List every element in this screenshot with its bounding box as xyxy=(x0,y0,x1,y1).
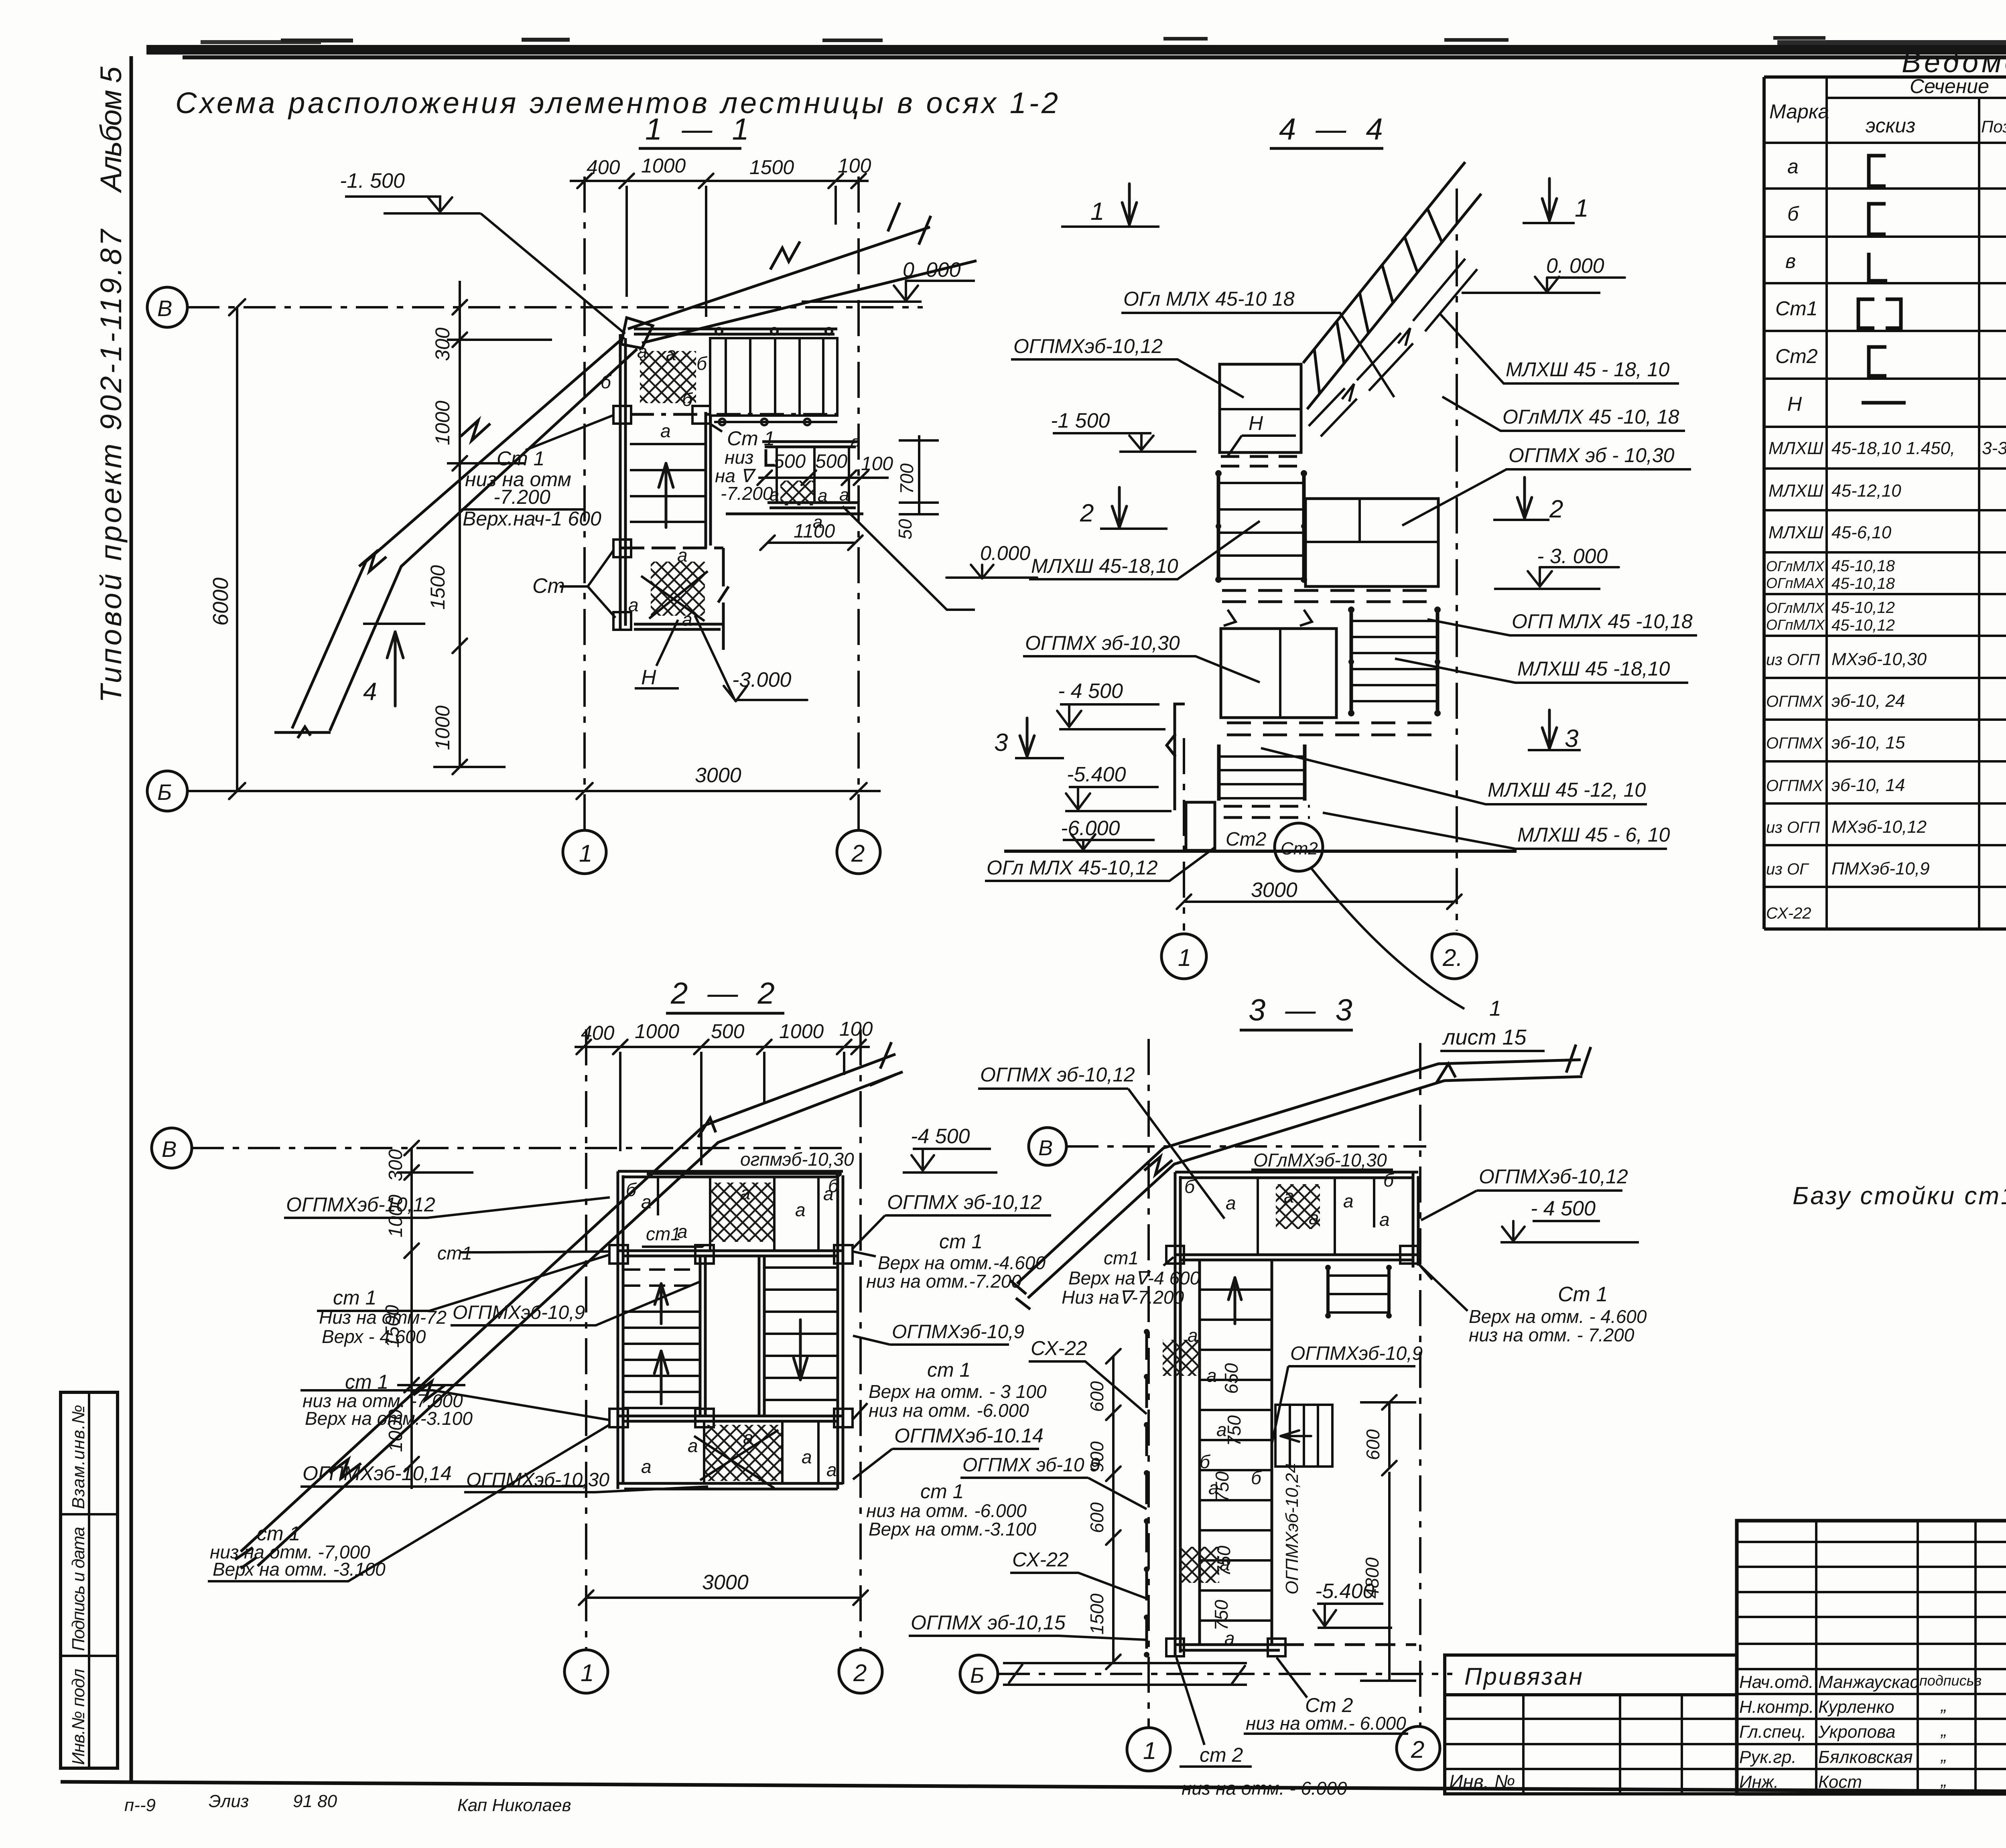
svg-text:а: а xyxy=(1787,155,1799,178)
svg-text:Ведомость: Ведомость xyxy=(1902,47,2006,79)
dashed strip 3 xyxy=(1227,723,1434,735)
lowest flight xyxy=(1219,744,1305,801)
top landing xyxy=(1276,1184,1320,1229)
svg-text:ОГПМХэб-10,24: ОГПМХэб-10,24 xyxy=(1282,1463,1302,1594)
svg-text:Верх на отм.-3.100: Верх на отм.-3.100 xyxy=(305,1408,473,1429)
svg-text:ст1: ст1 xyxy=(1104,1248,1139,1268)
right labels xyxy=(1488,358,1693,846)
left dim chain xyxy=(1112,1356,1115,1662)
svg-text:1: 1 xyxy=(1575,195,1588,222)
svg-text:Верх - 4.600: Верх - 4.600 xyxy=(322,1326,426,1347)
svg-text:МЛХШ 45-18,10: МЛХШ 45-18,10 xyxy=(1031,555,1178,577)
left stamp boxes xyxy=(61,1392,118,1768)
svg-text:45-10,18: 45-10,18 xyxy=(1831,575,1895,592)
axis B xyxy=(1029,1128,1066,1165)
svg-text:низ: низ xyxy=(725,447,753,468)
svg-text:-5.400: -5.400 xyxy=(1067,763,1126,786)
svg-text:600: 600 xyxy=(1086,1381,1107,1412)
svg-text:ОГлМЛХ: ОГлМЛХ xyxy=(1766,558,1825,574)
svg-text:Кост: Кост xyxy=(1818,1772,1862,1792)
central stair column xyxy=(1200,1260,1272,1645)
svg-text:МЛХШ: МЛХШ xyxy=(1768,438,1823,458)
svg-text:а: а xyxy=(637,341,648,362)
svg-text:Б: Б xyxy=(970,1663,984,1688)
svg-text:ОГл МЛХ 45-10 18: ОГл МЛХ 45-10 18 xyxy=(1123,288,1295,310)
svg-text:СХ-22: СХ-22 xyxy=(1766,905,1811,922)
svg-text:б: б xyxy=(696,353,708,374)
svg-text:ОГПМХэб-10.14: ОГПМХэб-10.14 xyxy=(894,1424,1044,1447)
svg-text:Верх на отм. -3.100: Верх на отм. -3.100 xyxy=(213,1559,386,1580)
svg-text:6000: 6000 xyxy=(209,578,233,626)
svg-text:ПМХэб-10,9: ПМХэб-10,9 xyxy=(1831,859,1930,878)
svg-text:1: 1 xyxy=(581,1659,594,1686)
svg-text:„: „ xyxy=(1940,1720,1947,1740)
svg-text:2: 2 xyxy=(1080,499,1094,527)
svg-text:а: а xyxy=(677,545,688,566)
svg-text:а: а xyxy=(1224,1628,1235,1649)
top dims xyxy=(575,1046,870,1048)
svg-text:750: 750 xyxy=(1211,1600,1232,1631)
middle flight xyxy=(630,444,705,522)
svg-text:1: 1 xyxy=(1178,944,1191,971)
4800 dim xyxy=(1388,1472,1391,1681)
svg-text:ОГПМХэб-10,12: ОГПМХэб-10,12 xyxy=(1013,335,1163,357)
svg-text:2: 2 xyxy=(1411,1736,1424,1763)
svg-text:из ОГП: из ОГП xyxy=(1766,819,1820,836)
plan walls xyxy=(1175,1172,1418,1656)
svg-text:0. 000: 0. 000 xyxy=(1546,254,1604,278)
svg-text:300: 300 xyxy=(385,1149,406,1181)
svg-text:ОГПМХэб-10,12: ОГПМХэб-10,12 xyxy=(286,1193,435,1216)
svg-text:45-10,12: 45-10,12 xyxy=(1831,617,1895,634)
svg-text:4: 4 xyxy=(363,678,377,706)
svg-text:-4 500: -4 500 xyxy=(911,1125,970,1148)
small grid rect xyxy=(1275,1405,1332,1467)
svg-text:Инж.: Инж. xyxy=(1739,1772,1779,1792)
dashed strip 2 xyxy=(1222,590,1435,602)
svg-text:2: 2 xyxy=(1549,495,1563,523)
svg-text:400: 400 xyxy=(581,1022,615,1044)
svg-text:а: а xyxy=(666,343,676,364)
under-landing dashed strip xyxy=(624,1270,700,1286)
svg-text:ОГПМХ эб-10,15: ОГПМХ эб-10,15 xyxy=(911,1611,1066,1634)
svg-text:низ на отм. - 6.000: низ на отм. - 6.000 xyxy=(1182,1778,1347,1799)
svg-text:Кап Николаев: Кап Николаев xyxy=(457,1795,571,1815)
svg-text:1: 1 xyxy=(1143,1737,1156,1764)
svg-text:Марка: Марка xyxy=(1769,100,1829,123)
svg-text:а: а xyxy=(1379,1209,1390,1230)
svg-text:Инв. №: Инв. № xyxy=(1449,1771,1515,1793)
rows 7-18 Марка + эскиз + состав xyxy=(1766,438,2006,923)
svg-text:-5.400: -5.400 xyxy=(1315,1580,1375,1603)
svg-text:а: а xyxy=(682,609,692,630)
svg-text:а: а xyxy=(1343,1191,1354,1211)
svg-text:500: 500 xyxy=(774,451,806,472)
plan: walls xyxy=(620,329,838,650)
svg-text:МЛХШ 45 -12, 10: МЛХШ 45 -12, 10 xyxy=(1488,779,1646,801)
header texts xyxy=(1769,75,2006,143)
svg-text:900: 900 xyxy=(1086,1441,1107,1472)
axis Б + 3000 dim xyxy=(147,771,187,811)
column Марка rows 1-6 xyxy=(1775,155,1818,415)
svg-text:3 — 3: 3 — 3 xyxy=(1249,993,1358,1027)
svg-text:3-3: 3-3 xyxy=(1982,438,2006,458)
svg-text:500: 500 xyxy=(815,451,847,472)
svg-text:-1 500: -1 500 xyxy=(1051,409,1110,432)
left dim chain xyxy=(459,281,461,767)
top-left hatch xyxy=(640,351,696,403)
left posts dashed xyxy=(1145,1330,1148,1657)
svg-text:Верх на отм. - 4.600: Верх на отм. - 4.600 xyxy=(1469,1306,1647,1327)
svg-text:Укропова: Укропова xyxy=(1818,1722,1896,1742)
svg-text:- 4 500: - 4 500 xyxy=(1531,1197,1596,1220)
axis B xyxy=(152,1128,192,1168)
svg-text:МЛХШ 45 -18,10: МЛХШ 45 -18,10 xyxy=(1517,657,1670,680)
svg-text:- 3. 000: - 3. 000 xyxy=(1537,545,1608,568)
svg-text:эб-10, 15: эб-10, 15 xyxy=(1831,733,1905,753)
svg-text:б: б xyxy=(626,1179,637,1200)
svg-text:а: а xyxy=(641,1456,652,1477)
svg-text:МХэб-10,12: МХэб-10,12 xyxy=(1831,817,1927,837)
label Ct1 left xyxy=(463,447,601,530)
svg-text:Бялковская: Бялковская xyxy=(1818,1747,1913,1767)
svg-text:МЛХШ 45 - 6, 10: МЛХШ 45 - 6, 10 xyxy=(1517,824,1670,846)
svg-text:3000: 3000 xyxy=(695,764,741,787)
svg-text:Верх на отм.-3.100: Верх на отм.-3.100 xyxy=(869,1519,1036,1540)
svg-text:Манжаускас: Манжаускас xyxy=(1818,1672,1919,1692)
svg-text:ОГпМАХ: ОГпМАХ xyxy=(1766,575,1825,591)
top-right flight xyxy=(710,338,837,422)
main page title xyxy=(175,86,1062,120)
svg-text:ОГП МЛХ 45 -10,18: ОГП МЛХ 45 -10,18 xyxy=(1512,610,1693,633)
svg-text:ОГПМХ эб-10,12: ОГПМХ эб-10,12 xyxy=(980,1063,1135,1086)
left wall bracket xyxy=(1167,704,1185,810)
svg-text:В: В xyxy=(162,1136,177,1162)
diagonal band xyxy=(235,1042,903,1568)
svg-text:3000: 3000 xyxy=(702,1571,749,1594)
svg-text:100: 100 xyxy=(838,154,871,177)
svg-text:Ст 1: Ст 1 xyxy=(497,447,544,470)
svg-text:а: а xyxy=(1226,1193,1236,1213)
svg-text:а: а xyxy=(839,485,849,505)
svg-text:МЛХШ: МЛХШ xyxy=(1768,523,1823,542)
svg-text:а: а xyxy=(826,1459,837,1480)
bottom landing xyxy=(704,1425,782,1481)
svg-text:Схема расположения элементов л: Схема расположения элементов лестницы в … xyxy=(175,86,1062,120)
svg-text:Н: Н xyxy=(1787,393,1802,415)
svg-text:1000: 1000 xyxy=(431,401,454,445)
svg-text:650: 650 xyxy=(1221,1363,1242,1394)
svg-text:ст 2: ст 2 xyxy=(1200,1744,1243,1766)
svg-text:1: 1 xyxy=(1090,198,1104,225)
lower-left rect xyxy=(1221,629,1336,718)
svg-text:500: 500 xyxy=(711,1020,745,1043)
svg-text:ОГл МЛХ 45-10,12: ОГл МЛХ 45-10,12 xyxy=(987,856,1158,879)
svg-text:Курленко: Курленко xyxy=(1818,1697,1894,1717)
svg-text:а: а xyxy=(688,1435,698,1456)
sketch channel glyphs xyxy=(1858,156,1906,403)
svg-text:низ на отм. -6.000: низ на отм. -6.000 xyxy=(866,1500,1027,1521)
svg-text:3000: 3000 xyxy=(1251,878,1297,902)
svg-text:Альбом 5: Альбом 5 xyxy=(94,66,128,193)
svg-text:Привязан: Привязан xyxy=(1464,1663,1584,1690)
svg-text:а: а xyxy=(1284,1186,1294,1207)
svg-text:Верх на отм. - 3 100: Верх на отм. - 3 100 xyxy=(869,1381,1047,1402)
svg-text:750: 750 xyxy=(1224,1415,1245,1446)
svg-text:400: 400 xyxy=(587,156,620,179)
svg-text:Ст2: Ст2 xyxy=(1226,829,1266,850)
svg-text:„: „ xyxy=(1940,1696,1947,1715)
svg-text:100: 100 xyxy=(839,1018,873,1040)
svg-text:1500: 1500 xyxy=(749,156,794,179)
upper diagonal band xyxy=(628,203,977,343)
svg-text:Б: Б xyxy=(157,779,172,805)
svg-text:а: а xyxy=(1216,1419,1227,1440)
signature rows xyxy=(1739,1672,1982,1792)
svg-text:а: а xyxy=(795,1199,806,1220)
svg-text:а: а xyxy=(1208,1477,1219,1498)
svg-text:МЛХШ 45 - 18, 10: МЛХШ 45 - 18, 10 xyxy=(1506,358,1669,381)
svg-text:ОГПМХ эб-10,12: ОГПМХ эб-10,12 xyxy=(887,1191,1042,1213)
svg-text:Верх на отм.-4.600: Верх на отм.-4.600 xyxy=(878,1252,1046,1273)
svg-text:45-12,10: 45-12,10 xyxy=(1831,481,1901,501)
left dim chain xyxy=(410,1148,413,1489)
svg-text:эб-10, 14: эб-10, 14 xyxy=(1831,775,1905,795)
right flight treads xyxy=(764,1268,838,1400)
svg-text:б: б xyxy=(1200,1451,1211,1472)
svg-text:45-6,10: 45-6,10 xyxy=(1831,523,1892,542)
svg-text:Поз: Поз xyxy=(1981,117,2006,136)
svg-text:а: а xyxy=(628,594,639,615)
svg-text:1000: 1000 xyxy=(779,1020,824,1043)
svg-text:из ОГ: из ОГ xyxy=(1766,860,1809,878)
svg-text:ст 1: ст 1 xyxy=(927,1359,971,1381)
top landing xyxy=(710,1183,774,1242)
top landing xyxy=(1220,364,1301,452)
svg-text:ОГПМХэб-10,9: ОГПМХэб-10,9 xyxy=(453,1302,585,1323)
svg-text:б: б xyxy=(1251,1467,1262,1488)
svg-text:лист 15: лист 15 xyxy=(1442,1025,1527,1049)
svg-text:ОГПМХэб-10,14: ОГПМХэб-10,14 xyxy=(303,1462,452,1485)
svg-text:45-18,10 1.450,: 45-18,10 1.450, xyxy=(1831,438,1955,458)
node squares xyxy=(613,406,710,630)
svg-text:45-10,18: 45-10,18 xyxy=(1831,557,1895,575)
svg-text:ОГПМХэб-10,12: ОГПМХэб-10,12 xyxy=(1479,1165,1628,1188)
svg-text:Ст1: Ст1 xyxy=(1775,297,1818,320)
svg-text:Низ на∇-7.200: Низ на∇-7.200 xyxy=(1062,1287,1184,1308)
right small flight xyxy=(1328,1266,1389,1318)
svg-text:Подпись и дата: Подпись и дата xyxy=(69,1527,88,1651)
svg-text:„: „ xyxy=(1940,1746,1947,1765)
svg-text:-1. 500: -1. 500 xyxy=(340,169,405,193)
svg-text:МХэб-10,30: МХэб-10,30 xyxy=(1831,649,1927,669)
svg-text:0.000: 0.000 xyxy=(980,542,1030,564)
svg-text:а: а xyxy=(641,1191,652,1212)
svg-text:ОГПМХ эб-10,30: ОГПМХ эб-10,30 xyxy=(1025,632,1180,654)
svg-text:50: 50 xyxy=(895,519,916,540)
grid axes 1,2 xyxy=(583,176,586,830)
svg-text:Гл.спец.: Гл.спец. xyxy=(1739,1722,1806,1742)
mid flight xyxy=(1218,472,1304,581)
top dim row xyxy=(570,180,869,182)
privyazan table xyxy=(1445,1655,1737,1794)
svg-text:б: б xyxy=(601,371,612,392)
svg-text:3: 3 xyxy=(994,729,1008,757)
axes xyxy=(1456,189,1458,931)
svg-text:а: а xyxy=(743,1427,753,1448)
svg-text:600: 600 xyxy=(1086,1502,1107,1533)
svg-text:1: 1 xyxy=(1489,996,1501,1020)
svg-text:ОГПМХ эб-10 9: ОГПМХ эб-10 9 xyxy=(962,1454,1100,1476)
left flight treads xyxy=(624,1312,700,1408)
svg-text:ст 1: ст 1 xyxy=(939,1230,983,1253)
svg-text:3: 3 xyxy=(1565,725,1578,753)
corner flag xyxy=(621,318,653,348)
bottom scribbles xyxy=(124,1791,571,1815)
label Ct1 node right xyxy=(715,427,775,504)
svg-text:ОГПМХ: ОГПМХ xyxy=(1766,734,1823,752)
svg-text:б: б xyxy=(828,1175,839,1196)
svg-text:Н.контр.: Н.контр. xyxy=(1739,1697,1814,1717)
svg-text:ОГлМЛХ: ОГлМЛХ xyxy=(1766,600,1825,616)
svg-text:СХ-22: СХ-22 xyxy=(1012,1548,1069,1571)
svg-text:ОГПМХ эб - 10,30: ОГПМХ эб - 10,30 xyxy=(1509,444,1675,467)
svg-text:1100: 1100 xyxy=(794,521,835,542)
outer + columns xyxy=(1737,1521,2006,1794)
svg-text:Верх на∇-4 600: Верх на∇-4 600 xyxy=(1068,1268,1200,1288)
600 dim right xyxy=(1388,1402,1391,1468)
svg-text:1000: 1000 xyxy=(635,1020,679,1043)
svg-text:эскиз: эскиз xyxy=(1866,114,1915,137)
svg-text:4 — 4: 4 — 4 xyxy=(1279,112,1389,146)
axis Б + strip xyxy=(960,1655,998,1693)
axis B xyxy=(147,287,187,327)
svg-text:Ст2: Ст2 xyxy=(1281,839,1318,858)
svg-text:1500: 1500 xyxy=(1086,1593,1107,1635)
letters xyxy=(601,341,708,630)
small right detail xyxy=(726,442,863,514)
svg-text:низ на отм.-7.200: низ на отм.-7.200 xyxy=(866,1271,1021,1292)
svg-text:а: а xyxy=(1309,1207,1319,1228)
svg-text:Инв.№ подл: Инв.№ подл xyxy=(69,1669,88,1765)
bottom hatch xyxy=(651,562,705,616)
svg-text:Верх.нач-1 600: Верх.нач-1 600 xyxy=(463,507,601,530)
svg-text:ОГПМХэб-10,9: ОГПМХэб-10,9 xyxy=(1290,1343,1423,1364)
top thick smudged border xyxy=(146,45,2006,55)
svg-text:-3.000: -3.000 xyxy=(732,668,792,692)
right lower flight xyxy=(1351,608,1437,715)
node squares xyxy=(609,1245,853,1427)
svg-text:-6.000: -6.000 xyxy=(1061,817,1120,840)
svg-text:91 80: 91 80 xyxy=(293,1791,337,1811)
svg-text:Рук.гр.: Рук.гр. xyxy=(1739,1747,1797,1767)
svg-text:а: а xyxy=(802,1446,812,1467)
diagonal band xyxy=(1010,1045,1591,1309)
svg-text:1000: 1000 xyxy=(641,154,686,177)
svg-text:1: 1 xyxy=(579,840,592,867)
node squares xyxy=(1166,1246,1418,1656)
svg-text:600: 600 xyxy=(1362,1429,1383,1460)
svg-text:В: В xyxy=(1038,1136,1053,1160)
svg-text:Базу стойки ст1 см. узел 2 н: Базу стойки ст1 см. узел 2 на листе 15. xyxy=(1793,1182,2006,1210)
svg-text:ОГПМХэб-10,9: ОГПМХэб-10,9 xyxy=(892,1321,1024,1343)
svg-text:2 — 2: 2 — 2 xyxy=(670,976,780,1010)
svg-text:низ на отм.- 6.000: низ на отм.- 6.000 xyxy=(1246,1713,1406,1734)
inclined ladder band xyxy=(1303,162,1481,409)
grid axes xyxy=(1147,1039,1150,1728)
svg-text:б: б xyxy=(1383,1170,1395,1191)
svg-text:ст 1: ст 1 xyxy=(920,1480,964,1503)
svg-text:Нач.отд.: Нач.отд. xyxy=(1739,1672,1813,1692)
svg-text:а: а xyxy=(770,485,779,505)
3000 dim xyxy=(586,1596,861,1599)
svg-text:ОГпМЛХ: ОГпМЛХ xyxy=(1766,617,1825,633)
svg-text:1500: 1500 xyxy=(426,565,449,610)
svg-text:в: в xyxy=(1785,250,1796,272)
svg-text:Н: Н xyxy=(1249,412,1263,434)
svg-text:из ОГП: из ОГП xyxy=(1766,651,1820,669)
svg-text:а: а xyxy=(1220,1554,1230,1574)
svg-text:низ на отм. -6.000: низ на отм. -6.000 xyxy=(869,1400,1029,1421)
svg-text:45-10,12: 45-10,12 xyxy=(1831,599,1895,617)
svg-text:ст 1: ст 1 xyxy=(333,1286,376,1309)
svg-text:а: а xyxy=(851,432,860,452)
plan walls xyxy=(618,1171,843,1489)
svg-text:ст1: ст1 xyxy=(646,1223,681,1244)
note text xyxy=(1793,1182,2006,1210)
lower diagonal band xyxy=(274,337,637,738)
svg-text:Элиз: Элиз xyxy=(209,1791,249,1811)
svg-text:Ст 1: Ст 1 xyxy=(1558,1283,1608,1306)
ground line xyxy=(1004,850,1517,853)
svg-text:700: 700 xyxy=(896,463,917,494)
Ct2 circle xyxy=(1275,823,1323,871)
svg-text:п--9: п--9 xyxy=(124,1795,156,1815)
right landing xyxy=(1306,499,1438,586)
svg-text:Взам.инв.№: Взам.инв.№ xyxy=(69,1405,88,1509)
svg-text:ОГПМХ: ОГПМХ xyxy=(1766,693,1823,710)
left labels xyxy=(210,1193,681,1580)
svg-text:1000: 1000 xyxy=(431,706,454,750)
svg-text:Типовой проект 902-1-119.87: Типовой проект 902-1-119.87 xyxy=(94,228,128,703)
section 4 mark bottom-left xyxy=(363,623,425,625)
left rotated project text xyxy=(94,66,128,703)
svg-text:„: „ xyxy=(1940,1771,1947,1790)
svg-text:Ст2: Ст2 xyxy=(1775,345,1818,367)
svg-text:а: а xyxy=(660,420,671,441)
svg-text:2: 2 xyxy=(851,840,865,867)
svg-text:эб-10, 24: эб-10, 24 xyxy=(1831,691,1905,711)
svg-text:2.: 2. xyxy=(1442,944,1463,971)
svg-text:Сечение: Сечение xyxy=(1910,75,1989,97)
svg-text:а: а xyxy=(740,1183,751,1203)
grid axes xyxy=(585,1029,587,1650)
left labels xyxy=(980,288,1295,879)
svg-text:б: б xyxy=(1787,203,1799,225)
svg-text:СХ-22: СХ-22 xyxy=(1031,1337,1087,1359)
svg-text:подписьв: подписьв xyxy=(1919,1672,1982,1689)
svg-text:- 4 500: - 4 500 xyxy=(1058,680,1123,703)
svg-text:1 — 1: 1 — 1 xyxy=(645,112,755,146)
svg-text:а: а xyxy=(818,486,827,505)
svg-text:низ на отм. - 7.200: низ на отм. - 7.200 xyxy=(1469,1325,1634,1345)
svg-text:Н: Н xyxy=(641,666,656,689)
svg-text:ОГлМХэб-10,30: ОГлМХэб-10,30 xyxy=(1253,1150,1387,1170)
hatches xyxy=(1163,1340,1201,1376)
grid xyxy=(1764,77,2006,929)
svg-text:ОГПМХ: ОГПМХ xyxy=(1766,777,1823,795)
svg-text:б: б xyxy=(682,389,693,410)
